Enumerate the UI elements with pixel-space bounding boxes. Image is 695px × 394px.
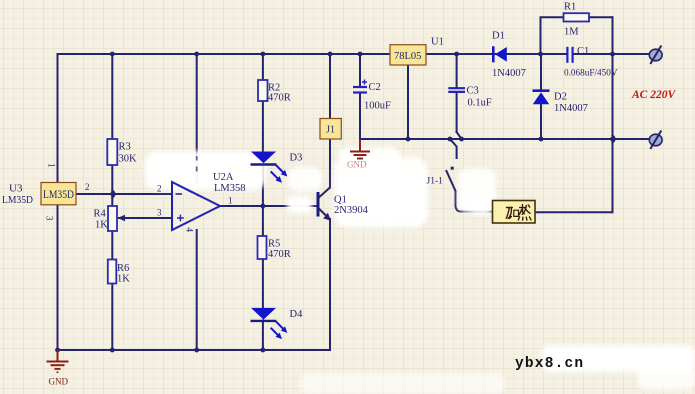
node ground rail / relay xyxy=(448,137,453,142)
node inverting input / R3 R4 xyxy=(110,192,114,196)
svg-text:0.1uF: 0.1uF xyxy=(468,98,492,109)
resistor R2 xyxy=(258,80,291,104)
node top rail / R2 xyxy=(261,52,266,57)
resistor R3 xyxy=(107,139,137,165)
svg-text:1N4007: 1N4007 xyxy=(492,68,526,79)
wire opamp pin4 to bottom rail xyxy=(196,230,198,350)
potentiometer R4 xyxy=(94,206,126,231)
wire 78L05 ground pin drop xyxy=(407,65,409,139)
wire R1 left leg xyxy=(541,17,564,54)
svg-text:AC 220V: AC 220V xyxy=(631,89,676,101)
wire LM35D pin2 to opamp inverting input xyxy=(76,193,172,195)
svg-text:R1: R1 xyxy=(564,2,576,13)
svg-text:100uF: 100uF xyxy=(364,101,391,112)
wire bottom rail xyxy=(58,349,331,351)
svg-text:R5: R5 xyxy=(268,239,280,250)
resistor R1 xyxy=(564,2,590,38)
heater box 加热 xyxy=(493,201,536,224)
svg-text:3: 3 xyxy=(157,208,162,218)
diode D1 1N4007 xyxy=(492,31,526,80)
wire live column x=612 xyxy=(612,17,614,212)
wire top rail left xyxy=(58,53,568,55)
LED D4 xyxy=(251,308,304,338)
AC terminal top xyxy=(649,46,662,65)
svg-text:GND: GND xyxy=(49,377,69,387)
wire top rail right xyxy=(573,53,651,55)
node top rail / C2 xyxy=(358,52,363,57)
diode D2 1N4007 xyxy=(533,91,588,114)
wire R4 wiper to opamp non-inverting input xyxy=(119,217,172,219)
svg-text:R4: R4 xyxy=(94,209,107,220)
svg-text:0.068uF/450V: 0.068uF/450V xyxy=(564,68,618,79)
node top rail / opamp V+ xyxy=(194,52,199,57)
svg-text:D4: D4 xyxy=(290,309,304,320)
svg-text:3: 3 xyxy=(45,216,55,221)
svg-text:Q1: Q1 xyxy=(334,195,347,206)
svg-text:U1: U1 xyxy=(431,37,444,48)
wire R2 top feed xyxy=(262,54,264,80)
node neutral rail / live column xyxy=(610,137,615,142)
wire R1 right leg xyxy=(589,16,613,18)
wire C3 bottom xyxy=(456,92,458,132)
svg-text:1N4007: 1N4007 xyxy=(554,103,588,114)
transistor Q1 2N3904 xyxy=(318,188,369,220)
node ground rail / C3 jog xyxy=(459,137,464,142)
remnant diagonal scan artifact inside opamp xyxy=(177,185,200,197)
wire left rail lower (LM35D pin3 to bottom rail) xyxy=(57,205,59,350)
node ground rail / D2 xyxy=(539,137,544,142)
node top rail / R3 xyxy=(110,52,115,57)
wire left rail upper (to LM35D pin1) xyxy=(57,54,59,183)
wire D2 top feed xyxy=(540,54,542,90)
svg-text:C2: C2 xyxy=(369,82,381,93)
resistor R6 xyxy=(108,260,130,285)
svg-text:1M: 1M xyxy=(564,27,579,38)
node top rail / C3 xyxy=(454,52,459,57)
wire relay arm vertical xyxy=(455,191,457,206)
wire D4 to bottom rail xyxy=(262,321,264,351)
svg-text:U2A: U2A xyxy=(213,172,234,183)
wire C2 bottom to ground rail xyxy=(359,93,361,140)
AC terminal bottom xyxy=(649,131,662,150)
wire relay jog off rail xyxy=(450,139,457,158)
svg-text:30K: 30K xyxy=(119,154,138,165)
node opamp output / R5 D3 xyxy=(261,204,266,209)
ground symbol under C2 xyxy=(347,139,370,170)
svg-text:LM358: LM358 xyxy=(214,183,246,194)
svg-text:C1: C1 xyxy=(577,46,589,57)
svg-text:ybx8.cn: ybx8.cn xyxy=(515,356,584,372)
wire R6 to bottom rail xyxy=(111,284,113,351)
capacitor C2 xyxy=(353,80,391,112)
wire C3 jog onto rail xyxy=(457,132,462,139)
svg-text:C3: C3 xyxy=(467,86,479,97)
svg-text:R6: R6 xyxy=(117,263,129,274)
node bottom rail / GND xyxy=(55,348,60,353)
node ground rail / 78L05 xyxy=(406,137,411,142)
relay coil J1 box xyxy=(320,119,341,140)
wire R5 to D4 xyxy=(262,259,264,308)
resistor R5 xyxy=(258,236,291,260)
wire relay foot to heater xyxy=(456,206,493,212)
wire R2 to D3 xyxy=(262,101,264,152)
LED D3 xyxy=(251,152,303,182)
svg-text:2N3904: 2N3904 xyxy=(334,205,369,216)
wire remnant dashes on opamp V+ feed xyxy=(196,156,198,172)
svg-text:J1-1: J1-1 xyxy=(427,177,444,187)
svg-text:R3: R3 xyxy=(119,142,131,153)
capacitor C3 xyxy=(448,86,492,109)
svg-text:GND: GND xyxy=(347,160,367,170)
wire opamp output to Q1 base xyxy=(220,205,317,207)
wire J1 top feed xyxy=(329,54,331,119)
wire C3 top feed xyxy=(456,54,458,88)
svg-text:2: 2 xyxy=(85,182,90,192)
wire opamp V+ pin8 xyxy=(196,54,198,182)
op-amp U2A LM358 xyxy=(157,172,246,233)
svg-text:U3: U3 xyxy=(9,183,23,195)
svg-text:4: 4 xyxy=(185,228,195,233)
white smudge patches (scan artifacts) xyxy=(145,147,695,394)
node top rail / J1 xyxy=(328,52,333,57)
wire D3 to R5 xyxy=(262,165,264,237)
sensor U3 LM35D box xyxy=(41,183,76,205)
wire R3 top feed xyxy=(111,54,113,139)
svg-text:470R: 470R xyxy=(268,93,291,104)
svg-text:1K: 1K xyxy=(117,274,130,285)
svg-text:1: 1 xyxy=(228,196,233,206)
regulator U1 78L05 box xyxy=(390,45,426,65)
wire D2 anode to rail xyxy=(540,104,542,139)
wire Q1 emitter to bottom rail xyxy=(329,219,331,350)
svg-text:2: 2 xyxy=(157,184,162,194)
wire hop bump at live column/neutral rail junction xyxy=(613,136,615,143)
wire R3 bottom to R4 xyxy=(111,165,113,206)
svg-text:J1: J1 xyxy=(326,125,335,136)
svg-text:LM35D: LM35D xyxy=(43,189,74,201)
relay contact J1-1 xyxy=(427,167,456,191)
svg-text:D1: D1 xyxy=(492,31,505,42)
svg-text:LM35D: LM35D xyxy=(2,194,33,206)
node bottom rail / D4 xyxy=(261,348,266,353)
wire hop bump at R3/R4 junction xyxy=(112,191,114,198)
svg-text:78L05: 78L05 xyxy=(394,51,421,62)
wire C2 top feed xyxy=(359,54,361,87)
node top rail / R1 right live column xyxy=(610,52,615,57)
svg-text:1: 1 xyxy=(47,163,57,168)
svg-text:1K: 1K xyxy=(95,220,108,231)
wire ground mid rail xyxy=(360,138,650,140)
wire R4 to R6 xyxy=(111,231,113,260)
wire heater to live column xyxy=(535,211,613,213)
svg-text:D2: D2 xyxy=(554,92,567,103)
wire J1 to Q1 collector xyxy=(329,139,331,188)
wiper arrowhead xyxy=(118,215,126,221)
node bottom rail / opamp pin4 xyxy=(194,348,199,353)
svg-text:D3: D3 xyxy=(290,153,303,164)
capacitor C1 xyxy=(564,46,618,79)
svg-text:470R: 470R xyxy=(268,249,291,260)
node bottom rail / R6 xyxy=(110,348,115,353)
ground symbol bottom left xyxy=(47,350,69,387)
node top rail / D2 R1 left xyxy=(538,52,543,57)
